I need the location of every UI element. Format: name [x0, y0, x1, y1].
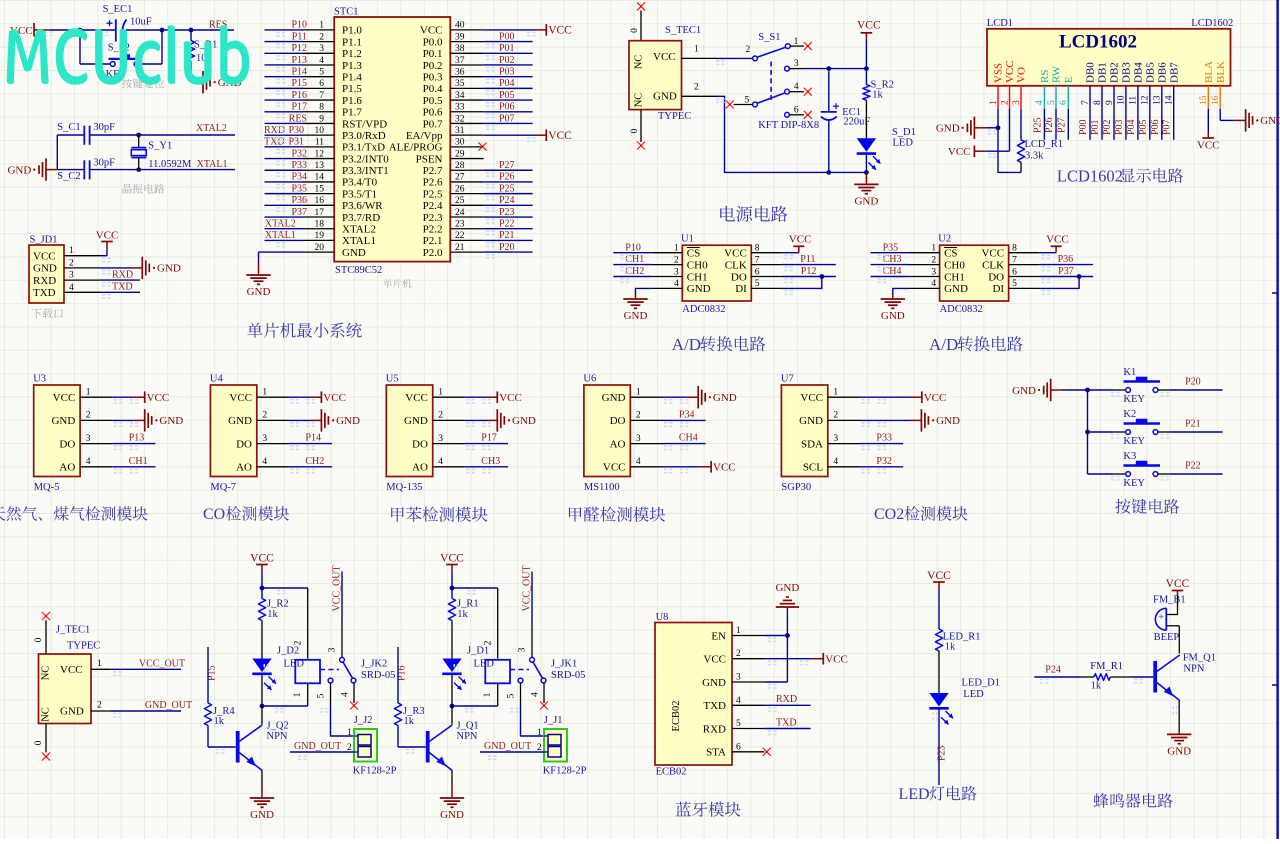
MCU pin 1 P1.0: [303, 29, 334, 31]
svg-text:P03: P03: [1114, 119, 1125, 135]
MCU pin 24 P2.3: [450, 216, 483, 218]
S_S1 gang dashed link: [770, 62, 772, 100]
svg-text:GND: GND: [602, 392, 626, 404]
LCD pin15 BLA to VCC: [1207, 109, 1209, 133]
ground GND (U7 pin2): [860, 419, 910, 421]
svg-text:P2.4: P2.4: [423, 200, 443, 212]
MCU pin 4 P1.3: [303, 64, 334, 66]
net label RXD (ECB02 pin4): [764, 704, 810, 706]
svg-text:P14: P14: [291, 66, 307, 77]
svg-text:CH1: CH1: [129, 456, 148, 467]
svg-text:3: 3: [518, 647, 528, 652]
junction dot reset node C: [189, 28, 194, 33]
svg-text:P31: P31: [289, 137, 305, 148]
svg-text:P0.2: P0.2: [423, 60, 443, 72]
svg-text:P06: P06: [499, 102, 515, 113]
svg-text:DB1: DB1: [1097, 62, 1109, 83]
svg-text:5: 5: [745, 95, 750, 105]
svg-text:4: 4: [931, 279, 936, 289]
svg-text:U2: U2: [938, 234, 951, 245]
svg-text:P34: P34: [291, 172, 307, 183]
svg-text:40: 40: [455, 21, 465, 31]
svg-text:P30: P30: [289, 125, 305, 136]
svg-text:CH1: CH1: [944, 271, 965, 283]
svg-text:NC: NC: [41, 707, 52, 722]
MCU pin 39 P0.0: [450, 41, 483, 43]
net label P12 (U1 pin6+5): [782, 276, 836, 278]
svg-text:4: 4: [438, 457, 443, 467]
power port VCC (MCU pin40): [484, 29, 535, 31]
capacitor S_EC1 10uF: [115, 19, 117, 41]
svg-text:KF128-2P: KF128-2P: [353, 766, 397, 777]
svg-text:GND: GND: [936, 415, 960, 427]
svg-text:1: 1: [347, 728, 352, 738]
MCU pin 26 P2.5: [450, 193, 483, 195]
MCUclub watermark logo: [7, 25, 250, 85]
svg-text:P3.2/INT0: P3.2/INT0: [342, 153, 389, 165]
svg-text:P06: P06: [1150, 119, 1161, 135]
svg-text:P0.6: P0.6: [423, 107, 443, 119]
LCD pin 7 wire: [1089, 109, 1091, 140]
no-connect X (S_S1 pin4): [804, 88, 812, 96]
svg-text:4: 4: [736, 696, 741, 706]
LED S_D1: [857, 138, 876, 152]
MCU pin 10 P3.0/RxD: [303, 134, 334, 136]
svg-text:1: 1: [833, 387, 838, 397]
wire coil bottom: [307, 683, 309, 706]
svg-text:P11: P11: [292, 31, 307, 42]
svg-text:KEY: KEY: [1123, 394, 1145, 405]
svg-text:4: 4: [531, 692, 541, 697]
ground GND (buzzer): [1178, 701, 1180, 731]
svg-text:VCC: VCC: [857, 19, 881, 31]
svg-text:DB6: DB6: [1156, 62, 1168, 83]
svg-text:LCD_R1: LCD_R1: [1025, 139, 1064, 150]
MCU pin 20 GND: [303, 251, 334, 253]
capacitor EC1 220uF: [828, 71, 830, 112]
title 单片机最小系统: [247, 323, 361, 338]
svg-text:6: 6: [794, 105, 799, 115]
svg-text:P2.0: P2.0: [423, 247, 443, 259]
svg-text:32: 32: [455, 114, 465, 124]
MCU pin 18 XTAL2: [303, 228, 334, 230]
junction dot bottom EC1: [826, 170, 831, 175]
svg-text:VCC: VCC: [825, 654, 848, 666]
svg-text:GND_OUT: GND_OUT: [294, 741, 341, 752]
svg-text:VCC: VCC: [229, 392, 252, 404]
svg-text:0: 0: [630, 128, 640, 133]
svg-text:2: 2: [69, 258, 74, 268]
ADC U1 left wires + labels P10 CH1 CH2: [613, 252, 652, 254]
svg-text:FM_B1: FM_B1: [1153, 594, 1186, 605]
MCU pin 14 P3.4/T0: [303, 181, 334, 183]
svg-text:29: 29: [455, 149, 465, 159]
svg-text:1: 1: [989, 100, 999, 105]
svg-text:NPN: NPN: [1183, 664, 1204, 675]
J_TEC1 shield stub bottom: [45, 724, 47, 753]
svg-text:P34: P34: [679, 409, 695, 420]
LCD pin 14 wire: [1173, 109, 1175, 140]
svg-text:VCC: VCC: [96, 229, 119, 241]
svg-text:3: 3: [674, 267, 679, 277]
ground GND (crystal): [46, 169, 57, 171]
svg-text:17: 17: [315, 208, 325, 218]
svg-text:GND: GND: [7, 164, 31, 176]
resistor S_R1 10k: [190, 30, 192, 41]
label 单片机: [383, 279, 411, 288]
svg-text:VCC_OUT: VCC_OUT: [522, 565, 533, 611]
svg-text:P00: P00: [499, 31, 515, 42]
MCU pin 11 P3.1/TxD: [303, 146, 334, 148]
svg-text:23: 23: [455, 220, 465, 230]
no-connect X (J_JK2 pin4): [350, 702, 358, 710]
svg-text:U1: U1: [681, 234, 694, 245]
net label P33 (U7 pin3): [860, 443, 903, 445]
svg-text:1k: 1k: [945, 642, 956, 653]
svg-text:DI: DI: [735, 283, 747, 295]
MCU pin 3 P1.2: [303, 52, 334, 54]
svg-text:GND: GND: [702, 677, 726, 689]
resistor J_R2 1k: [261, 588, 263, 599]
svg-text:GND: GND: [687, 283, 711, 295]
svg-text:J_D2: J_D2: [277, 646, 299, 657]
svg-text:2: 2: [694, 83, 699, 93]
ground GND (ECB02 EN net): [764, 635, 787, 637]
wire VSS junction down to resistor bottom: [998, 128, 1021, 173]
svg-text:P21: P21: [499, 230, 515, 241]
resistor FM_R1 1k: [1034, 676, 1080, 678]
svg-text:U8: U8: [656, 612, 669, 623]
LED J_D1: [442, 659, 461, 673]
svg-text:1: 1: [636, 387, 641, 397]
MCU pin 2 P1.1: [303, 41, 334, 43]
svg-text:5: 5: [319, 67, 324, 77]
svg-text:P14: P14: [305, 433, 321, 444]
resistor S_R2 1k: [865, 69, 867, 85]
svg-text:J_D1: J_D1: [467, 646, 489, 657]
svg-text:NC: NC: [634, 55, 645, 70]
svg-text:3: 3: [794, 59, 799, 69]
svg-text:1: 1: [293, 692, 303, 697]
svg-text:P3.6/WR: P3.6/WR: [342, 200, 383, 212]
svg-text:2: 2: [262, 411, 267, 421]
svg-text:GND: GND: [342, 247, 366, 259]
svg-text:DI: DI: [992, 283, 1004, 295]
svg-text:ADC0832: ADC0832: [940, 304, 983, 315]
svg-text:35: 35: [455, 79, 465, 89]
svg-text:GND: GND: [33, 263, 57, 275]
title 蓝牙模块: [676, 802, 741, 817]
LCD pin16 BLK to GND: [1219, 109, 1221, 121]
ground GND (keys): [1051, 389, 1062, 391]
power port VCC (U3 pin1): [112, 396, 133, 398]
LCD pin 5 wire: [1055, 109, 1057, 140]
svg-text:DB0: DB0: [1085, 62, 1097, 83]
ground GND (U1 pin4): [636, 288, 652, 295]
svg-text:TXD: TXD: [264, 137, 285, 148]
svg-text:GND: GND: [336, 415, 360, 427]
relay switch pin4 (J_JK1): [541, 678, 546, 683]
MCU pin 40 VCC: [450, 29, 483, 31]
svg-text:VO: VO: [1016, 67, 1028, 83]
svg-text:4: 4: [86, 457, 91, 467]
svg-text:10uF: 10uF: [130, 17, 152, 28]
MCU pin 31 EA/Vpp: [450, 134, 483, 136]
MCU pin 33 P0.6: [450, 111, 483, 113]
svg-text:P21: P21: [1185, 419, 1201, 430]
svg-text:LCD1602: LCD1602: [1057, 167, 1123, 186]
svg-text:S_C1: S_C1: [57, 122, 80, 133]
svg-text:2: 2: [736, 649, 741, 659]
svg-text:3: 3: [319, 44, 324, 54]
svg-text:VCC: VCC: [1004, 60, 1016, 83]
svg-text:TYPEC: TYPEC: [658, 111, 691, 122]
svg-text:P04: P04: [1126, 119, 1137, 135]
svg-text:P33: P33: [876, 433, 892, 444]
svg-text:NC: NC: [634, 93, 645, 108]
LED LED_D1: [929, 693, 948, 707]
svg-text:P04: P04: [499, 78, 515, 89]
MCU pin 17 P3.7/RD: [303, 216, 334, 218]
svg-text:VCC: VCC: [420, 25, 443, 37]
svg-text:VCC: VCC: [548, 25, 572, 37]
key trunk wire: [1087, 390, 1089, 474]
power port VCC (U6 pin4): [663, 466, 700, 468]
svg-text:31: 31: [455, 126, 465, 136]
svg-text:RXD: RXD: [33, 275, 56, 287]
no-connect X (S_TEC1 top shield): [637, 2, 645, 10]
title 蜂鸣器电路: [1094, 793, 1173, 808]
svg-text:P2.6: P2.6: [423, 177, 443, 189]
svg-text:U5: U5: [386, 373, 399, 384]
svg-text:GND: GND: [159, 415, 183, 427]
wire to relay coil top: [262, 587, 308, 589]
crystal S_Y1 11.0592M: [136, 133, 141, 138]
svg-text:4: 4: [674, 279, 679, 289]
MCU pin 21 P2.0: [450, 251, 483, 253]
svg-text:TXD: TXD: [112, 282, 133, 293]
svg-text:19: 19: [315, 231, 325, 241]
svg-text:4: 4: [636, 457, 641, 467]
svg-text:1k: 1k: [404, 716, 415, 727]
svg-text:VCC: VCC: [981, 248, 1004, 260]
svg-text:3: 3: [438, 434, 443, 444]
svg-text:STC89C52: STC89C52: [335, 265, 382, 276]
J_TEC1 shield stub top: [45, 620, 47, 654]
net label TXD: [100, 291, 140, 293]
MCU pin 9 RST/VPD: [303, 122, 334, 124]
relay switch pin4 (J_JK2): [351, 678, 356, 683]
svg-text:CS: CS: [944, 248, 957, 260]
svg-text:DO: DO: [412, 438, 428, 450]
svg-text:U6: U6: [583, 373, 596, 384]
svg-text:SDA: SDA: [801, 438, 823, 450]
junction dot bottom LED: [864, 170, 869, 175]
svg-text:CH0: CH0: [687, 259, 708, 271]
MCU pin 32 P0.7: [450, 122, 483, 124]
svg-text:GND: GND: [854, 195, 878, 207]
svg-text:21: 21: [455, 243, 465, 253]
svg-text:BLA: BLA: [1203, 61, 1215, 83]
LCD pin 13 wire: [1161, 109, 1163, 140]
svg-text:1k: 1k: [1091, 681, 1102, 692]
label 下载口: [31, 308, 63, 318]
svg-text:NPN: NPN: [267, 731, 288, 742]
LCD pin 9 wire: [1113, 109, 1115, 140]
svg-text:CLK: CLK: [725, 259, 747, 271]
svg-text:P1.7: P1.7: [342, 107, 362, 119]
resistor J_R1 1k: [451, 588, 453, 599]
svg-text:1: 1: [794, 37, 799, 47]
svg-text:VCC: VCC: [147, 392, 170, 404]
svg-text:P25: P25: [1032, 117, 1043, 133]
svg-text:3: 3: [636, 434, 641, 444]
svg-text:P26: P26: [499, 172, 515, 183]
svg-text:J_J2: J_J2: [354, 715, 373, 726]
relay switch pin3 (J_JK2): [341, 572, 343, 619]
sheet border right: [1276, 0, 1278, 839]
svg-text:GND: GND: [1260, 115, 1280, 127]
MCU pin 28 P2.7: [450, 169, 483, 171]
svg-text:1: 1: [674, 244, 679, 254]
transistor J_Q2 NPN: [261, 706, 263, 725]
svg-text:J_TEC1: J_TEC1: [56, 624, 90, 635]
svg-text:P3.4/T0: P3.4/T0: [342, 177, 378, 189]
svg-text:VCC: VCC: [927, 570, 951, 582]
svg-text:P01: P01: [1090, 119, 1101, 135]
svg-text:XTAL2: XTAL2: [342, 224, 376, 236]
svg-text:K1: K1: [1123, 367, 1136, 378]
svg-text:NPN: NPN: [457, 731, 478, 742]
svg-text:ADC0832: ADC0832: [682, 304, 725, 315]
svg-text:J_Q1: J_Q1: [457, 720, 479, 731]
svg-text:12: 12: [1141, 95, 1151, 105]
svg-text:P0.5: P0.5: [423, 95, 443, 107]
LCD pin 6 wire: [1067, 109, 1069, 140]
svg-text:S_Y1: S_Y1: [148, 140, 172, 151]
push button S_S2 (KEY): [79, 30, 81, 64]
svg-text:15: 15: [315, 184, 325, 194]
svg-text:LCD1602: LCD1602: [1191, 18, 1233, 29]
svg-text:P05: P05: [1138, 119, 1149, 135]
svg-text:6: 6: [755, 267, 760, 277]
svg-text:P1.1: P1.1: [342, 36, 362, 48]
svg-text:P12: P12: [801, 266, 817, 277]
relay dashed actuator link (J_JK1): [510, 669, 529, 671]
svg-text:TXD: TXD: [776, 717, 797, 728]
svg-text:4: 4: [319, 56, 324, 66]
svg-text:GND: GND: [1012, 385, 1036, 397]
svg-text:12: 12: [315, 149, 325, 159]
svg-text:3: 3: [86, 434, 91, 444]
svg-text:2: 2: [484, 640, 494, 645]
ground GND (MCU pin20): [259, 251, 304, 253]
svg-text:27: 27: [455, 173, 465, 183]
svg-text:GND: GND: [1167, 745, 1191, 757]
power port VCC (U7 pin1): [860, 396, 911, 398]
svg-text:0: 0: [630, 28, 640, 33]
svg-text:37: 37: [455, 56, 465, 66]
svg-text:4: 4: [833, 457, 838, 467]
svg-text:S_TEC1: S_TEC1: [665, 25, 701, 36]
svg-text:GND: GND: [228, 415, 252, 427]
svg-text:2: 2: [86, 411, 91, 421]
svg-text:P02: P02: [1102, 119, 1113, 135]
svg-text:SRD-05: SRD-05: [551, 670, 585, 681]
svg-text:2: 2: [674, 255, 679, 265]
svg-text:P03: P03: [499, 66, 515, 77]
svg-text:CLK: CLK: [982, 259, 1004, 271]
power port VCC (U2 pin8): [1039, 252, 1056, 254]
wire S_EC1 to RES node: [126, 29, 234, 31]
svg-text:VCC: VCC: [948, 146, 971, 158]
svg-text:1: 1: [262, 387, 267, 397]
svg-text:1: 1: [319, 21, 324, 31]
svg-text:KEY: KEY: [1123, 436, 1145, 447]
svg-text:GND: GND: [247, 286, 271, 298]
svg-text:4: 4: [69, 283, 74, 293]
svg-text:9: 9: [1105, 100, 1115, 105]
capacitor S_C2 30pF: [83, 160, 85, 179]
svg-text:P05: P05: [499, 90, 515, 101]
svg-text:BLK: BLK: [1215, 61, 1227, 83]
svg-text:BEEP: BEEP: [1154, 632, 1180, 643]
svg-text:2: 2: [294, 640, 304, 645]
svg-text:KEY: KEY: [1123, 478, 1145, 489]
svg-text:5: 5: [1012, 279, 1017, 289]
svg-text:1k: 1k: [214, 716, 225, 727]
svg-text:LED: LED: [899, 786, 930, 803]
svg-text:VCC: VCC: [323, 392, 346, 404]
svg-text:RST/VPD: RST/VPD: [342, 118, 387, 130]
svg-text:36: 36: [455, 67, 465, 77]
svg-text:VCC: VCC: [724, 248, 747, 260]
no-connect X (S_S1 pin6): [804, 111, 812, 119]
LCD pin 4 wire: [1043, 109, 1045, 140]
svg-text:VCC: VCC: [405, 392, 428, 404]
svg-text:GND_OUT: GND_OUT: [145, 700, 192, 711]
svg-text:P20: P20: [1185, 377, 1201, 388]
net label P11 (U1 pin7): [782, 264, 836, 266]
svg-text:0: 0: [34, 740, 44, 745]
ADC U2 left wires + labels P35 CH3 CH4: [871, 252, 910, 254]
net label RXD: [100, 279, 140, 281]
svg-text:8: 8: [755, 244, 760, 254]
svg-text:P27: P27: [499, 160, 515, 171]
net label CH3 (U5 pin4): [465, 466, 508, 468]
net label GND_OUT (J_J1 pin2): [480, 751, 544, 753]
svg-text:GND: GND: [404, 415, 428, 427]
label 晶振电路: [123, 184, 165, 194]
svg-text:30pF: 30pF: [93, 122, 115, 133]
svg-text:TXD: TXD: [703, 700, 726, 712]
net label P37 (U2 pin6+5): [1039, 276, 1093, 278]
svg-text:P13: P13: [291, 55, 307, 66]
svg-text:S_JD1: S_JD1: [30, 235, 58, 246]
svg-text:1k: 1k: [457, 609, 468, 620]
title 甲苯检测模块: [391, 507, 487, 522]
svg-text:LCD1: LCD1: [987, 18, 1013, 29]
svg-text:P33: P33: [291, 160, 307, 171]
svg-text:RW: RW: [1051, 65, 1063, 83]
svg-text:5: 5: [507, 693, 517, 698]
resistor LED_R1 1k: [935, 629, 942, 651]
svg-text:MS1100: MS1100: [584, 482, 620, 493]
svg-text:P1.0: P1.0: [342, 25, 362, 37]
svg-text:CH0: CH0: [944, 259, 965, 271]
svg-text:VCC: VCC: [60, 664, 83, 676]
svg-text:39: 39: [455, 32, 465, 42]
